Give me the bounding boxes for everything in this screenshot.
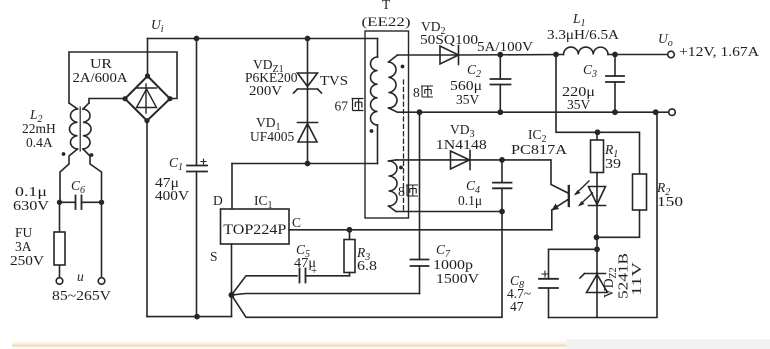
node feedback tap <box>553 52 559 58</box>
label 67 turns <box>335 99 364 114</box>
capacitor C6 <box>57 196 104 210</box>
wire drain bus (D pin to primary bottom) <box>232 164 378 210</box>
svg-text:3A: 3A <box>15 239 32 254</box>
node C2 top <box>497 52 503 58</box>
wire secondary top to VD2 <box>398 54 459 56</box>
svg-text:0.4A: 0.4A <box>26 135 53 150</box>
wire U_i bus <box>148 39 378 77</box>
svg-text:560μ: 560μ <box>450 78 482 93</box>
wire bias return <box>396 211 502 213</box>
L2 phase dot right <box>90 153 94 157</box>
svg-text:UR: UR <box>90 56 112 71</box>
inductor L2 <box>60 103 102 202</box>
wire C pin <box>289 229 552 231</box>
opto light arrows <box>574 181 593 207</box>
L2 phase dot left <box>62 152 66 156</box>
svg-text:1500V: 1500V <box>436 271 479 286</box>
node LED cathode / R2 <box>594 234 600 240</box>
node VD1/drain junction <box>305 161 311 167</box>
diode VD3 <box>396 151 470 170</box>
wire L1 to +12V terminal <box>608 54 668 56</box>
svg-text:8: 8 <box>398 184 405 199</box>
node C7 top <box>417 109 423 115</box>
zener diode VDZ2 <box>580 273 608 318</box>
svg-text:+12V, 1.67A: +12V, 1.67A <box>679 44 759 59</box>
wire S pin <box>231 244 233 317</box>
resistor R1 <box>591 132 604 205</box>
svg-text:UF4005: UF4005 <box>250 129 295 144</box>
svg-text:39: 39 <box>605 156 621 171</box>
svg-text:8: 8 <box>413 85 420 100</box>
capacitor C3 <box>606 55 624 113</box>
diode VD1 <box>298 89 318 164</box>
svg-text:150: 150 <box>657 194 683 209</box>
svg-text:PC817A: PC817A <box>511 142 567 157</box>
terminal +12V output <box>668 51 675 58</box>
capacitor C7 <box>232 112 429 295</box>
capacitor C8 <box>539 249 597 317</box>
capacitor C5 <box>232 269 350 296</box>
terminal 0V output <box>669 109 676 116</box>
node C4 bottom <box>499 209 505 215</box>
terminal AC left <box>56 278 63 285</box>
node source fan junction <box>229 292 235 298</box>
primary phase dot <box>370 129 374 133</box>
node C1 bottom <box>194 314 200 320</box>
svg-text:200V: 200V <box>249 83 282 98</box>
transformer T (EE22) core box <box>365 31 409 218</box>
IC1 TOP224P <box>221 209 290 244</box>
TVS diode VDZ1 <box>294 39 322 94</box>
wire +12V rail <box>459 54 564 57</box>
svg-text:C: C <box>292 215 301 230</box>
node C2 bottom <box>497 109 503 115</box>
node C3 top <box>612 52 618 58</box>
svg-text:3.3μH/6.5A: 3.3μH/6.5A <box>547 27 619 42</box>
svg-text:S: S <box>210 249 218 264</box>
wire 0V rail <box>398 111 669 113</box>
node C3 bottom <box>612 109 618 115</box>
svg-text:630V: 630V <box>13 198 49 213</box>
svg-text:u: u <box>77 269 84 284</box>
bridge rectifier UR <box>122 73 172 123</box>
svg-text:11V: 11V <box>629 262 644 296</box>
svg-text:TVS: TVS <box>320 73 348 88</box>
opto LED IC2 <box>589 187 606 273</box>
label secondary 8 turns <box>413 85 433 100</box>
svg-text:5A/100V: 5A/100V <box>477 39 533 54</box>
svg-text:0.1μ: 0.1μ <box>15 184 47 199</box>
label bias 8 turns <box>398 184 418 199</box>
svg-text:TOP224P: TOP224P <box>223 222 286 238</box>
secondary phase dot <box>401 65 405 69</box>
capacitor C1 <box>187 39 207 317</box>
wire L2 right top to bridge left <box>89 99 123 104</box>
node VD3/C4 top <box>499 157 505 163</box>
svg-text:(EE22): (EE22) <box>362 14 411 29</box>
opto phototransistor IC2 <box>471 160 569 230</box>
svg-text:FU: FU <box>15 225 33 240</box>
resistor R2 <box>597 174 647 237</box>
transformer primary winding 67 turns <box>370 39 377 164</box>
svg-text:T: T <box>382 0 391 12</box>
fuse FU <box>54 202 65 277</box>
node zener / C8 branch <box>594 246 600 252</box>
svg-text:D: D <box>213 193 223 208</box>
transformer bias winding 8 turns <box>389 160 398 212</box>
svg-text:35V: 35V <box>567 97 591 112</box>
node 0V feedback tap <box>653 109 659 115</box>
capacitor C4 <box>493 160 512 212</box>
svg-text:6.8: 6.8 <box>357 258 377 273</box>
capacitor C2 <box>491 55 511 112</box>
svg-text:1000p: 1000p <box>433 257 473 272</box>
svg-text:+: + <box>311 265 317 277</box>
svg-text:67: 67 <box>335 99 349 114</box>
inductor L1 <box>563 47 608 54</box>
svg-text:35V: 35V <box>456 92 480 107</box>
transformer secondary winding 8 turns <box>389 55 398 112</box>
wire C4 return to source <box>232 212 503 318</box>
bias phase dot <box>399 166 403 170</box>
svg-text:47: 47 <box>510 299 524 314</box>
svg-text:85~265V: 85~265V <box>52 288 111 303</box>
terminal AC right <box>98 278 105 285</box>
wire primary bottom rail <box>147 316 232 318</box>
resistor R3 <box>344 230 355 276</box>
svg-text:250V: 250V <box>10 253 44 268</box>
diode VD2 <box>440 46 459 65</box>
svg-text:400V: 400V <box>155 188 189 203</box>
node U_i/C1 junction <box>194 36 200 42</box>
wire feedback dropper <box>556 55 640 175</box>
wire bottom right return rail <box>549 112 658 317</box>
svg-text:0.1μ: 0.1μ <box>458 193 482 208</box>
svg-text:2A/600A: 2A/600A <box>73 70 128 85</box>
node R3 top <box>347 227 353 233</box>
svg-text:1N4148: 1N4148 <box>436 137 487 152</box>
wire AC right input <box>101 202 103 277</box>
node R1 top <box>595 129 601 135</box>
svg-text:50SQ100: 50SQ100 <box>420 32 478 47</box>
wire bridge bottom to ground rail <box>146 121 148 317</box>
wire AC left top loop <box>69 52 177 103</box>
node U_i/VDZ1 junction <box>305 36 311 42</box>
svg-text:22mH: 22mH <box>22 121 56 136</box>
